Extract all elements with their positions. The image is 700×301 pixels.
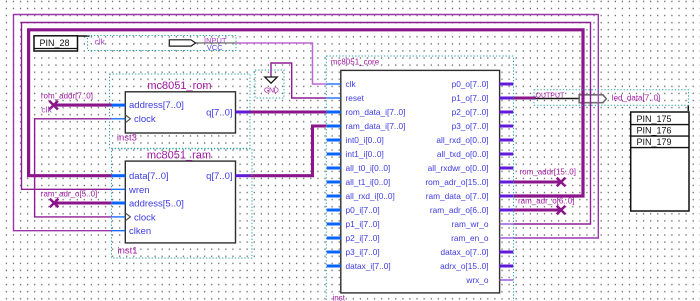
rom port texts: [129, 100, 233, 125]
svg-text:PIN_179: PIN_179: [637, 137, 672, 147]
svg-text:PIN_28: PIN_28: [40, 38, 70, 48]
svg-text:GND: GND: [264, 87, 279, 94]
svg-text:ram_adr_o[6..0]: ram_adr_o[6..0]: [430, 205, 489, 215]
core right port stubs: [499, 84, 513, 280]
ram stubs: [112, 174, 126, 177]
ram clock triangle: [126, 213, 131, 221]
svg-text:all_rxd_o[0..0]: all_rxd_o[0..0]: [436, 135, 488, 145]
svg-text:q[7..0]: q[7..0]: [206, 171, 232, 182]
svg-text:VCC: VCC: [207, 43, 223, 52]
svg-text:mc8051_rom: mc8051_rom: [147, 80, 211, 92]
svg-text:clk: clk: [95, 36, 106, 46]
selection dashed box ram: [112, 149, 253, 258]
OUTPUT pin flag symbol: [579, 95, 606, 103]
svg-text:wren: wren: [128, 185, 150, 196]
svg-text:led_data[7..0]: led_data[7..0]: [612, 93, 660, 102]
svg-text:data[7..0]: data[7..0]: [129, 171, 169, 182]
selection dashed box gnd: [255, 70, 284, 98]
mc8051_ram block body: [125, 161, 235, 243]
bus rom q to core rom_data_i: [250, 110, 327, 113]
svg-text:all_rxdwr_o[0..0]: all_rxdwr_o[0..0]: [428, 163, 489, 173]
svg-text:ram_adr_o[5..0]: ram_adr_o[5..0]: [41, 190, 97, 199]
svg-text:clken: clken: [129, 226, 151, 237]
svg-text:ram_wr_o: ram_wr_o: [452, 219, 489, 229]
svg-text:int0_i[0..0]: int0_i[0..0]: [346, 135, 384, 145]
bus ram q to core ram_data_i: [250, 126, 327, 176]
rom stubs: [112, 104, 126, 107]
svg-text:all_t0_i[0..0]: all_t0_i[0..0]: [346, 163, 391, 173]
svg-text:OUTPUT: OUTPUT: [536, 92, 566, 99]
core port name texts: [346, 79, 406, 271]
mc8051_rom block body: [125, 92, 235, 133]
svg-text:ram_en_o: ram_en_o: [451, 233, 489, 243]
svg-text:ram_data_i[7..0]: ram_data_i[7..0]: [346, 121, 406, 131]
svg-text:p2_o[7..0]: p2_o[7..0]: [452, 107, 489, 117]
svg-text:inst: inst: [333, 294, 346, 301]
svg-text:PIN_176: PIN_176: [637, 125, 672, 135]
svg-text:p1_o[7..0]: p1_o[7..0]: [452, 93, 489, 103]
svg-text:PIN_175: PIN_175: [637, 114, 672, 124]
ram port texts: [128, 171, 233, 237]
bus rom_addr[7..0] into rom address: [54, 104, 112, 107]
selection dashed box clk input pin: [88, 36, 237, 51]
wire net ram_en loop (outer): core ram_en_o to ram clken: [14, 15, 599, 239]
svg-text:all_rxd_i[0..0]: all_rxd_i[0..0]: [346, 191, 395, 201]
svg-text:datax_i[7..0]: datax_i[7..0]: [346, 261, 391, 271]
svg-text:p0_o[7..0]: p0_o[7..0]: [452, 79, 489, 89]
svg-text:clk: clk: [41, 104, 52, 114]
GND symbol: [265, 77, 277, 83]
svg-text:p3_o[7..0]: p3_o[7..0]: [452, 121, 489, 131]
bus ram_adr_o[6..0] out of core (dangling): [513, 208, 559, 211]
svg-text:inst3: inst3: [117, 133, 137, 144]
PIN_28 assignment box: [34, 36, 90, 51]
svg-text:p2_i[7..0]: p2_i[7..0]: [346, 233, 380, 243]
selection dashed box rom: [110, 74, 251, 148]
svg-text:rom_addr[7..0]: rom_addr[7..0]: [41, 91, 93, 100]
svg-text:datax_o[7..0]: datax_o[7..0]: [441, 247, 489, 257]
svg-text:p0_i[7..0]: p0_i[7..0]: [346, 205, 380, 215]
svg-text:rom_adr_o[15..0]: rom_adr_o[15..0]: [425, 177, 488, 187]
PIN assignment table for led_data: [631, 105, 689, 211]
svg-text:ram_adr_o[6..0]: ram_adr_o[6..0]: [518, 196, 574, 205]
svg-text:p3_i[7..0]: p3_i[7..0]: [346, 247, 380, 257]
dangling X on rom_addr bus: [49, 101, 58, 110]
selection dashed box output pin: [534, 90, 689, 105]
svg-text:p1_i[7..0]: p1_i[7..0]: [346, 219, 380, 229]
svg-text:all_t1_i[0..0]: all_t1_i[0..0]: [346, 177, 391, 187]
svg-text:mc8051_ram: mc8051_ram: [147, 149, 211, 161]
svg-text:address[7..0]: address[7..0]: [129, 100, 184, 111]
rom clock triangle: [126, 115, 131, 123]
mc8051_core block body: [341, 70, 500, 293]
dangling X on ram_adr_o bus: [50, 199, 59, 208]
wire clk to rom clock and ram clock: [35, 119, 112, 217]
svg-text:mc8051_core: mc8051_core: [331, 57, 380, 66]
bus ram_adr_o[5..0] into ram address: [54, 201, 112, 204]
OUTPUT pin lead: [536, 98, 579, 100]
bus p1_o to OUTPUT pin: [513, 96, 536, 99]
svg-text:int1_i[0..0]: int1_i[0..0]: [346, 149, 384, 159]
INPUT pin flag symbol: [196, 42, 236, 44]
svg-text:q[7..0]: q[7..0]: [206, 107, 232, 118]
svg-text:rom_data_i[7..0]: rom_data_i[7..0]: [346, 107, 406, 117]
dangling X rom_addr[15..0]: [557, 178, 566, 187]
svg-text:reset: reset: [346, 93, 365, 103]
svg-text:rom_addr[15..0]: rom_addr[15..0]: [520, 167, 576, 176]
bus rom_adr_o out of core (dangling): [513, 180, 559, 183]
svg-text:clk: clk: [346, 79, 357, 89]
svg-text:ram_data_o[7..0]: ram_data_o[7..0]: [426, 191, 489, 201]
svg-text:address[5..0]: address[5..0]: [129, 198, 184, 209]
svg-text:adrx_o[15..0]: adrx_o[15..0]: [440, 261, 488, 271]
wire segments crossing over output flag: [581, 89, 584, 106]
wire clk from INPUT pin to core clk: [236, 43, 327, 84]
core left port stubs: [327, 84, 341, 266]
dangling X ram_adr_o[6..0]: [557, 206, 566, 215]
selection dashed box core: [326, 56, 513, 301]
wire gnd to core reset: [271, 63, 327, 98]
svg-text:clock: clock: [134, 212, 156, 223]
wire net ram_wr loop (middle): core ram_wr_o to ram wren: [22, 23, 591, 225]
svg-text:inst1: inst1: [118, 246, 138, 257]
bus net ram_data loop (thick): core ram_data_o to ram data[7..0]: [29, 30, 583, 196]
svg-text:all_txd_o[0..0]: all_txd_o[0..0]: [437, 149, 489, 159]
svg-text:wrx_o: wrx_o: [465, 275, 489, 285]
svg-text:clock: clock: [134, 114, 156, 125]
